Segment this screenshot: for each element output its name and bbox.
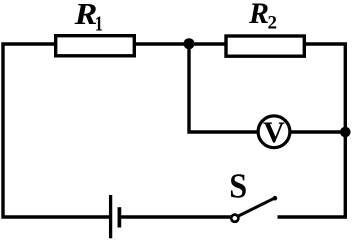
battery B1: short plate bbox=[118, 207, 122, 227]
svg-text:R: R bbox=[74, 0, 98, 32]
switch S: blade bbox=[238, 198, 275, 216]
switch S: blade tip bbox=[273, 196, 278, 201]
node: junction of R1, R2 and voltmeter branch bbox=[184, 38, 195, 49]
svg-text:S: S bbox=[229, 167, 247, 206]
voltmeter U1 bbox=[258, 116, 290, 149]
wire: left side loop (R1 left terminal, down left side, along bottom to battery) bbox=[3, 44, 110, 217]
svg-text:V: V bbox=[263, 116, 285, 149]
resistor R1 bbox=[56, 36, 135, 56]
node: voltmeter branch joins right side wire bbox=[340, 127, 351, 138]
resistor R2 bbox=[226, 36, 304, 56]
battery B1: long plate bbox=[109, 195, 112, 238]
switch S: pivot circle bbox=[231, 215, 238, 222]
wire: voltmeter right terminal to right-side node bbox=[290, 130, 347, 133]
wire: R2 right terminal, around top-right corner, down right side, along bottom to switch bbox=[278, 44, 346, 217]
wire: voltmeter branch, from junction node down then right to voltmeter bbox=[189, 46, 259, 132]
svg-text:1: 1 bbox=[95, 13, 103, 36]
wire: battery positive terminal to switch circle bbox=[120, 215, 233, 218]
svg-text:R: R bbox=[248, 0, 269, 30]
svg-text:2: 2 bbox=[268, 13, 278, 34]
wire: junction node to R2 left terminal bbox=[188, 42, 226, 45]
wire: R1 right terminal to junction node bbox=[134, 42, 190, 45]
